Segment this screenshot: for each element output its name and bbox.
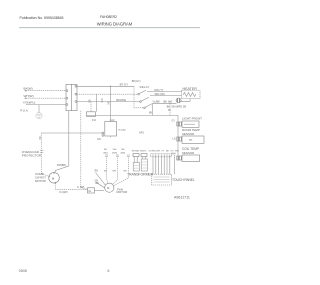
svg-text:BK: BK: [166, 151, 169, 153]
svg-text:WH: WH: [100, 99, 103, 103]
svg-text:AP1: AP1: [139, 131, 144, 135]
svg-text:TRANSFORMER: TRANSFORMER: [127, 173, 154, 177]
svg-text:RD (Y): RD (Y): [155, 88, 164, 92]
svg-text:FU: FU: [92, 118, 96, 122]
svg-text:GN: GN: [97, 138, 101, 141]
svg-text:BK: BK: [104, 170, 107, 172]
svg-text:WH(W): WH(W): [24, 94, 34, 98]
svg-text:RD: RD: [95, 171, 99, 173]
svg-text:BK: BK: [88, 100, 91, 104]
svg-text:RD/WH: RD/WH: [116, 98, 126, 102]
svg-text:M: M: [107, 186, 110, 190]
svg-text:BT GY: BT GY: [120, 82, 129, 86]
svg-text:A9611711: A9611711: [174, 196, 190, 200]
svg-text:LIGHT FRONT: LIGHT FRONT: [182, 116, 202, 120]
svg-text:SENSOR: SENSOR: [182, 151, 194, 155]
svg-text:TOUCH PANEL: TOUCH PANEL: [172, 178, 195, 182]
svg-text:MOTOR: MOTOR: [35, 179, 46, 183]
svg-text:OL: OL: [88, 190, 92, 193]
svg-text:F1(W): F1(W): [60, 190, 68, 194]
svg-text:03/08: 03/08: [19, 269, 27, 273]
svg-text:SENSOR: SENSOR: [182, 132, 194, 136]
svg-text:WH: WH: [112, 170, 116, 172]
svg-text:FAH08ER2: FAH08ER2: [100, 15, 117, 19]
svg-text:Y/GN(PU): Y/GN(PU): [23, 100, 36, 104]
svg-text:YL/BK: YL/BK: [152, 99, 160, 103]
svg-text:BK (W): BK (W): [164, 99, 173, 103]
svg-text:GY: GY: [172, 119, 176, 122]
svg-text:M: M: [52, 176, 55, 180]
svg-text:TH: TH: [189, 139, 192, 142]
svg-text:P.U.A.: P.U.A.: [20, 108, 28, 112]
svg-text:SOL(A): SOL(A): [118, 128, 126, 131]
svg-text:Publication No. 5995438845: Publication No. 5995438845: [20, 16, 64, 20]
svg-text:GY/BN: GY/BN: [149, 151, 156, 153]
svg-text:BK: BK: [104, 149, 107, 151]
svg-text:36: 36: [168, 109, 171, 112]
svg-text:BK: BK: [149, 112, 153, 115]
svg-text:C (W): C (W): [77, 185, 84, 189]
svg-text:LG: LG: [173, 138, 176, 141]
svg-text:WH: WH: [156, 151, 160, 153]
svg-text:WH (W): WH (W): [155, 92, 165, 96]
svg-text:(BN): (BN): [121, 152, 126, 154]
svg-text:PROTECTOR: PROTECTOR: [22, 154, 42, 158]
svg-text:BN: BN: [124, 170, 127, 172]
svg-text:BN/YL: BN/YL: [140, 151, 147, 153]
svg-text:6: 6: [108, 269, 110, 273]
svg-text:BK: BK: [107, 102, 110, 106]
svg-text:WH: WH: [175, 151, 179, 153]
svg-text:BN: BN: [121, 149, 124, 151]
svg-text:BK(GY): BK(GY): [132, 80, 141, 83]
svg-text:RD/WH: RD/WH: [132, 151, 140, 153]
svg-text:BK(W): BK(W): [24, 87, 33, 91]
svg-text:50+5MFD 2M: 50+5MFD 2M: [172, 105, 187, 108]
svg-text:MOTOR: MOTOR: [117, 190, 128, 194]
svg-text:FM(BK): FM(BK): [57, 163, 66, 167]
svg-text:(WH): (WH): [112, 152, 117, 154]
svg-text:WH: WH: [113, 149, 117, 151]
svg-text:WH: WH: [172, 153, 176, 156]
svg-text:WIRING DIAGRAM: WIRING DIAGRAM: [97, 21, 133, 26]
svg-text:BK: BK: [38, 137, 41, 141]
svg-text:COMP: COMP: [35, 172, 44, 176]
svg-text:GN: GN: [95, 180, 99, 182]
svg-text:(BK): (BK): [103, 152, 108, 154]
svg-text:RELAY: RELAY: [140, 85, 150, 89]
svg-text:VT: VT: [161, 151, 164, 153]
